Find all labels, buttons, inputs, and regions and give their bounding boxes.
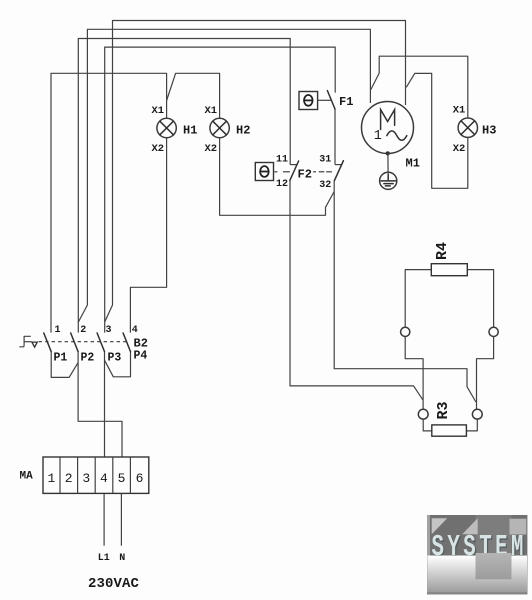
B2 contact 4 blade: [123, 333, 130, 352]
wire H2 X2 to F2 terminal 32 node: [220, 138, 335, 216]
wire R3 left terminal to resistor: [423, 419, 432, 431]
F2 contact 31-32 blade: [334, 161, 343, 181]
svg-text:4: 4: [132, 325, 138, 336]
B2 contact 1 blade: [44, 333, 51, 352]
B2 dashed coupling line: [39, 341, 128, 343]
svg-text:5: 5: [118, 471, 126, 486]
wire F2 terminal 12 to R3 left node: [290, 180, 423, 400]
wire F2 terminal 32 to R3 right node: [334, 181, 476, 402]
svg-text:N: N: [119, 553, 125, 564]
svg-text:R4: R4: [434, 242, 451, 260]
svg-text:X1: X1: [205, 105, 218, 117]
svg-text:11: 11: [276, 155, 288, 166]
svg-text:X1: X1: [453, 105, 466, 117]
wire terminal MA 5 to N: [120, 493, 122, 545]
svg-text:1: 1: [374, 129, 382, 144]
wire R3 right terminal to resistor: [466, 419, 477, 431]
wire net A: B2 contact 2 to F2 terminal 11: [78, 39, 290, 333]
svg-text:H2: H2: [236, 124, 250, 138]
B2 contact 2 blade: [71, 333, 78, 352]
svg-text:R3: R3: [435, 401, 452, 419]
connector terminal right of R4 loop: [489, 327, 498, 336]
svg-text:2: 2: [80, 325, 86, 336]
svg-text:3: 3: [82, 471, 90, 486]
wire net C: B2 contact 3 to F1 switch top: [105, 47, 336, 333]
svg-text:F1: F1: [339, 95, 353, 109]
watermark logo: [427, 515, 528, 595]
wire B2 P2 to terminal MA 5: [78, 352, 122, 457]
B2 manual operator symbol: [19, 336, 37, 347]
motor M1 bottom terminal dot: [386, 151, 390, 155]
wire B2 P4 to P3 bottom link: [105, 352, 131, 377]
svg-text:M1: M1: [406, 156, 420, 170]
lamp H1: [157, 118, 176, 137]
connector terminal right of R3: [472, 409, 482, 419]
svg-text:32: 32: [319, 180, 331, 191]
svg-text:6: 6: [136, 471, 144, 486]
wire terminal MA 4 to L1: [103, 493, 105, 545]
resistor R4 loop wiring: [405, 270, 431, 328]
wire net E: B2 contact 1 to lamp H1 X1: [51, 73, 167, 332]
svg-text:P4: P4: [134, 349, 148, 362]
svg-text:2: 2: [65, 471, 73, 486]
F2 contact 11-12 blade: [290, 161, 299, 180]
wire motor right junction to H3 X2: [406, 73, 468, 188]
lamp H2: [210, 118, 229, 137]
svg-text:X2: X2: [152, 143, 165, 155]
wire R4 right terminal down to R3 right node: [477, 337, 494, 410]
wire H1 X2 to B2 contact 4: [130, 138, 166, 333]
wire R4 left terminal down to R3 left node: [405, 337, 423, 410]
wire F1 bottom to F2 terminal 31: [334, 109, 336, 165]
F1 switch blade: [327, 91, 335, 109]
wire B2 P3 to terminal MA 4: [104, 352, 106, 457]
connector terminal left of R3: [418, 409, 428, 419]
svg-text:X2: X2: [205, 143, 218, 155]
resistor R4: [431, 264, 467, 276]
wire net D: motor M1 right terminal to B2 contact 3: [105, 21, 406, 323]
svg-text:H3: H3: [482, 124, 496, 138]
wire motor to ground: [387, 153, 389, 172]
svg-text:3: 3: [106, 325, 112, 336]
wire motor left junction to H3 X1: [371, 56, 468, 118]
svg-text:H1: H1: [183, 124, 197, 138]
svg-text:P3: P3: [108, 351, 122, 364]
thermal switch F1: [299, 92, 332, 110]
lamp H3: [458, 118, 477, 137]
B2 contact 3 blade: [97, 333, 104, 352]
svg-text:1: 1: [55, 325, 61, 336]
svg-text:230VAC: 230VAC: [88, 576, 140, 592]
motor M1: [362, 102, 414, 154]
svg-text:31: 31: [319, 155, 331, 166]
wire net B: motor M1 left terminal to B2 contact 2: [78, 29, 370, 322]
svg-text:MA: MA: [20, 471, 34, 483]
terminal block MA: [43, 457, 149, 493]
F2 contact 31 fixed terminal foot: [335, 164, 342, 166]
F2 contact 11 fixed terminal foot: [290, 164, 296, 166]
svg-text:B2: B2: [134, 337, 148, 351]
thermostat F2: [255, 163, 332, 181]
svg-text:F2: F2: [298, 168, 312, 182]
ground (protective earth): [380, 172, 397, 189]
svg-text:1: 1: [48, 471, 56, 486]
svg-text:X2: X2: [453, 143, 466, 155]
svg-text:X1: X1: [152, 105, 165, 117]
svg-text:P2: P2: [81, 351, 95, 364]
resistor R3: [432, 425, 467, 436]
svg-text:12: 12: [276, 179, 288, 190]
svg-text:4: 4: [100, 471, 108, 486]
connector terminal left of R4 loop: [401, 327, 410, 336]
wire branch from H1 feed to H2 X1: [167, 73, 220, 118]
wire B2 P1 to P2 bottom link: [51, 352, 78, 378]
svg-text:L1: L1: [98, 553, 110, 564]
svg-text:P1: P1: [54, 351, 68, 364]
